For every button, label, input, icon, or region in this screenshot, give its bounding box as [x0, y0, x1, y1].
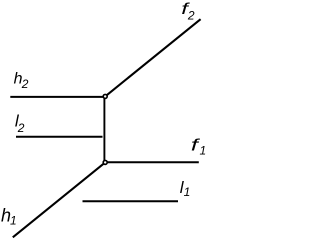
svg-text:1: 1 [10, 213, 17, 227]
label f2 [181, 1, 195, 23]
wire f2 (frontal projection of frontal f) [105, 19, 200, 96]
wire h2 (frontal projection of horizontal h) [10, 96, 104, 98]
svg-text:2: 2 [187, 9, 195, 23]
node lower (intersection of h1, f1, connection line) [103, 160, 107, 164]
wire f1 (top projection of frontal f) [105, 161, 199, 163]
label h2 [14, 71, 29, 91]
label h1 [1, 206, 17, 228]
svg-text:1: 1 [200, 144, 207, 158]
svg-text:1: 1 [184, 185, 191, 199]
node upper (intersection of h2, f2, connection line) [103, 94, 107, 98]
wire l2 (frontal projection of line l) [16, 136, 103, 138]
wire l1 (top projection of line l) [83, 200, 179, 202]
label l1 [180, 178, 190, 199]
label f1 [191, 136, 206, 158]
wire vertical connection line [103, 96, 105, 162]
svg-text:2: 2 [21, 77, 29, 91]
svg-text:2: 2 [17, 121, 25, 135]
wire h1 (top projection of horizontal h) [13, 162, 105, 237]
label l2 [15, 111, 25, 134]
